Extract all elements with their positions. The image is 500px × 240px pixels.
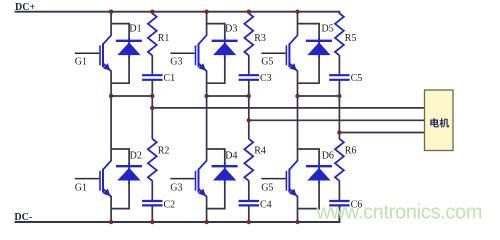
svg-text:DC+: DC+ [15,2,35,13]
wire: diode D1 bottom to emitter link [111,58,129,84]
wire: collector stub to diode D3 top [207,24,225,39]
svg-text:G3: G3 [170,183,182,194]
diode D3 (freewheeling, cathode up) [212,38,238,59]
DC+ rail [15,12,340,14]
wire: diode D5 bottom to emitter link [298,58,320,84]
wire: midpoint to phase line tap (leg 2) [248,96,250,120]
svg-text:R5: R5 [345,33,357,44]
wire: phase tap down to R6 (leg 3) [338,133,340,140]
svg-text:www.cntronics.com: www.cntronics.com [316,202,483,224]
svg-text:G3: G3 [170,57,182,68]
junction dots on midpoint rows [109,94,342,98]
wire: C2 to DC- [151,205,153,222]
IGBT lower leg 2 (G3) [196,161,207,197]
IGBT upper leg 3 (G5) [286,35,297,71]
diode D6 (freewheeling, cathode up) [306,163,332,184]
svg-text:C5: C5 [351,73,363,84]
wire: midpoint row leg 1 [111,95,152,97]
gate lead G1 upper [75,52,99,54]
wire: emitter to midpoint row (leg 3) [297,71,299,96]
svg-text:G1: G1 [75,183,87,194]
wire: emitter to midpoint row (leg 1) [110,71,112,96]
capacitor C2 [142,201,162,205]
resistor R6 [335,139,344,181]
wire: R1 to C1 [151,55,153,75]
wire: C6 to DC- [338,205,340,222]
wire: emitter to midpoint row (leg 2) [206,71,208,96]
wire: collector stub to diode D2 top [111,149,129,164]
gate lead G1 lower [75,178,99,180]
wire: lower emitter to DC- (leg 1) [110,196,112,222]
svg-text:R2: R2 [158,145,170,156]
svg-text:R3: R3 [254,33,266,44]
svg-text:C2: C2 [164,200,176,211]
wire: R6 to C6 [338,181,340,201]
svg-text:D6: D6 [322,151,334,162]
wire: midpoint to lower IGBT collector (leg 3) [297,96,299,161]
IGBT upper leg 1 (G1) [100,35,111,71]
wire: DC+ to upper IGBT collector (leg 2) [206,12,208,36]
diode D1 (freewheeling, cathode up) [116,38,142,59]
gate lead G5 lower [261,178,285,180]
wire: midpoint row leg 3 [298,95,340,97]
svg-text:C1: C1 [164,73,176,84]
wire: lower emitter to DC- (leg 3) [297,196,299,222]
svg-text:G5: G5 [261,57,273,68]
junction dots on DC- rail [109,220,300,224]
diode D2 (freewheeling, cathode up) [116,163,142,184]
wire: DC+ to upper IGBT collector (leg 1) [110,12,112,36]
resistor R5 [335,13,344,55]
svg-text:G5: G5 [261,183,273,194]
capacitor C5 [329,75,349,80]
wire: phase tap down to R2 (leg 1) [151,108,153,139]
wire: phase line 3 to motor [339,132,424,134]
resistor R3 [244,13,253,55]
DC- rail [15,205,340,222]
wire: R4 to C4 [248,181,250,201]
IGBT lower leg 3 (G5) [286,161,297,197]
wire: C5 to midpoint row [338,80,340,96]
wire: phase line 1 to motor [152,107,424,109]
wire: lower emitter to DC- (leg 2) [206,196,208,222]
svg-text:R1: R1 [158,33,170,44]
wire: phase line 2 to motor [249,119,425,121]
wire: midpoint to lower IGBT collector (leg 1) [110,96,112,161]
svg-text:D3: D3 [225,24,237,35]
wire: diode D4 bottom to emitter link [207,183,225,209]
junction dots on DC+ rail [109,10,300,14]
svg-text:G1: G1 [75,57,87,68]
gate lead G5 upper [261,52,285,54]
svg-text:R6: R6 [345,145,357,156]
wire: R5 to C5 [338,55,340,75]
wire: C3 to midpoint row [248,80,250,96]
wire: midpoint row leg 2 [207,95,249,97]
IGBT lower leg 1 (G1) [100,161,111,197]
svg-text:D1: D1 [129,24,141,35]
capacitor C6 [329,201,349,205]
wire: collector stub to diode D1 top [111,24,129,39]
wire: DC+ to upper IGBT collector (leg 3) [297,12,299,36]
diode D4 (freewheeling, cathode up) [212,163,238,184]
gate lead G3 lower [170,178,194,180]
wire: midpoint to phase line tap (leg 1) [151,96,153,108]
motor block 电机 [425,90,454,151]
svg-text:C4: C4 [260,200,272,211]
wire: C4 to DC- [248,205,250,222]
capacitor C4 [239,201,259,205]
wire: diode D6 bottom to emitter link [298,183,320,209]
svg-text:C3: C3 [260,73,272,84]
wire: C1 to midpoint row [151,80,153,96]
svg-text:D4: D4 [225,151,237,162]
capacitor C3 [239,75,259,80]
svg-text:D2: D2 [130,151,142,162]
gate lead G3 upper [170,52,194,54]
wire: collector stub to diode D5 top [298,24,320,39]
svg-text:R4: R4 [254,145,266,156]
wire: R2 to C2 [151,181,153,201]
resistor R1 [148,13,157,55]
wire: phase tap down to R4 (leg 2) [248,120,250,139]
resistor R2 [148,139,157,181]
resistor R4 [244,139,253,181]
diode D5 (freewheeling, cathode up) [306,38,332,59]
wire: midpoint to lower IGBT collector (leg 2) [206,96,208,161]
svg-text:DC-: DC- [14,212,32,223]
IGBT upper leg 2 (G3) [196,35,207,71]
capacitor C1 [142,75,162,80]
wire: midpoint to phase line tap (leg 3) [338,96,340,133]
junction dots at phase taps [150,106,341,135]
wire: diode D2 bottom to emitter link [111,183,129,209]
wire: diode D3 bottom to emitter link [207,58,225,84]
svg-text:D5: D5 [322,24,334,35]
wire: collector stub to diode D4 top [207,149,225,164]
wire: R3 to C3 [248,55,250,75]
wire: collector stub to diode D6 top [298,149,320,164]
